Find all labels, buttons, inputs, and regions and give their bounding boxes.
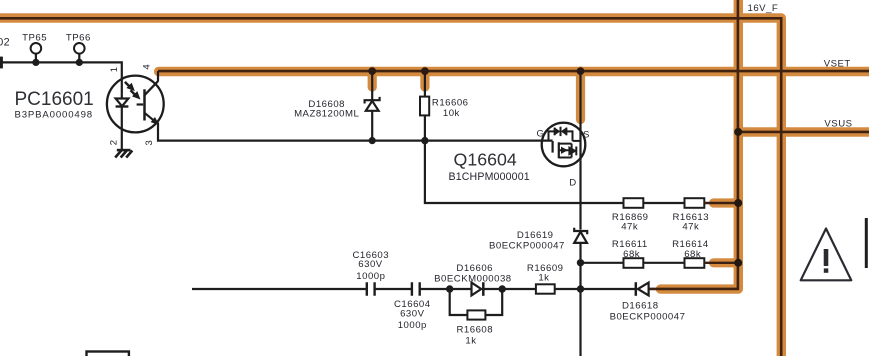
- op-to: PC16601 optocoupler: [107, 76, 164, 133]
- junction dot row3/drain: [577, 285, 584, 292]
- svg-text:VSUS: VSUS: [824, 118, 852, 129]
- wire: opto pin3 down then right (gate wire): [158, 123, 553, 141]
- wire: drain down from Q16604: [579, 161, 581, 230]
- MOSFET Q16604: [542, 71, 586, 166]
- svg-text:TP65: TP65: [22, 33, 47, 44]
- svg-text:D: D: [569, 177, 576, 188]
- svg-text:1000p: 1000p: [356, 271, 385, 282]
- diode D16618: [635, 282, 638, 296]
- highlighted stub to Q16604 source: [576, 71, 585, 119]
- wire: gate drop to row1: [425, 141, 624, 203]
- svg-text:630V: 630V: [358, 259, 383, 270]
- svg-text:TP66: TP66: [66, 33, 91, 44]
- zener diode D16619: [574, 228, 587, 356]
- svg-text:68k: 68k: [684, 249, 701, 260]
- svg-text:S: S: [583, 130, 590, 141]
- dark core: 16V_F bus 1: [649, 0, 738, 289]
- svg-text:MAZ81200ML: MAZ81200ML: [294, 109, 359, 120]
- junction dot row1/bus: [734, 199, 742, 207]
- highlighted stub to D16608: [368, 71, 377, 87]
- body diode: [569, 147, 576, 155]
- S/D vertical inside: [579, 71, 581, 161]
- wire: R16613 to bus: [704, 202, 738, 204]
- svg-text:1k: 1k: [465, 335, 476, 346]
- resistor R16613: [685, 198, 705, 208]
- capacitor C16603: [367, 282, 375, 295]
- resistor R16606: [424, 71, 426, 141]
- resistor R16611: [624, 258, 644, 268]
- wire: opto pin2 to ground: [121, 132, 123, 151]
- junction dot R16606/gate wire: [421, 137, 428, 144]
- svg-text:16V_F: 16V_F: [748, 3, 779, 14]
- source-drain rail: [571, 144, 573, 158]
- highlighted segment row2 to bus: [714, 258, 739, 267]
- svg-text:10k: 10k: [443, 108, 460, 119]
- dark core: VSET: [158, 70, 869, 73]
- svg-text:47k: 47k: [682, 222, 699, 233]
- phototransistor of PC16601: [143, 89, 146, 120]
- wire D16606 to R16609: [484, 288, 536, 290]
- warning triangle: [801, 229, 852, 281]
- svg-text:1: 1: [109, 67, 120, 72]
- branch with R16608: [450, 289, 503, 315]
- wire: between R16611 and R16614: [643, 262, 684, 264]
- svg-text:1000p: 1000p: [398, 320, 427, 331]
- junction dot D16608/gate wire: [369, 137, 376, 144]
- resistor R16608: [467, 310, 485, 319]
- junction dot row2/bus: [734, 259, 742, 267]
- wire: R16614 to bus: [704, 262, 738, 264]
- wire R16609 to drain line and D16618: [555, 288, 635, 290]
- wire: left terminal stub: [0, 57, 3, 69]
- wire: row2 from drain to R16611: [581, 262, 624, 264]
- LED of PC16601: [121, 88, 123, 99]
- junction dot S stub/VSET: [577, 67, 585, 75]
- junction dot D16608/VSET: [368, 67, 376, 75]
- svg-text:R16608: R16608: [456, 325, 493, 336]
- gate-source protection zener pair: [549, 131, 573, 141]
- resistor R16609: [536, 284, 555, 293]
- svg-text:1k: 1k: [538, 273, 549, 284]
- svg-text:2: 2: [109, 140, 120, 145]
- wire: bottom long wire: [192, 288, 367, 290]
- resistor R16869: [624, 198, 644, 208]
- junction dots around D16606: [446, 285, 453, 292]
- svg-text:B0ECKP000047: B0ECKP000047: [610, 312, 686, 323]
- highlighted net: 16V_F vertical bus 1 with hook to D16618: [661, 0, 739, 289]
- junction dot R16606/VSET: [421, 67, 429, 75]
- svg-text:Q16604: Q16604: [454, 150, 517, 170]
- gate bar and channel: [551, 141, 553, 153]
- svg-text:02: 02: [0, 36, 10, 48]
- svg-text:B1CHPM000001: B1CHPM000001: [449, 171, 530, 183]
- svg-text:47k: 47k: [621, 222, 638, 233]
- light arrows: [125, 82, 130, 88]
- junction dot row2/drain: [577, 259, 584, 266]
- svg-text:D16619: D16619: [517, 230, 554, 241]
- svg-text:D16618: D16618: [622, 301, 659, 312]
- dark core: VSUS: [738, 131, 869, 134]
- wire: between R16869 and R16613: [643, 202, 684, 204]
- highlighted stub to R16606: [420, 71, 429, 87]
- svg-text:630V: 630V: [400, 309, 425, 320]
- svg-text:G: G: [537, 128, 545, 139]
- testpoint TP65: [31, 43, 42, 54]
- highlighted segment row1 to bus: [714, 198, 739, 207]
- svg-text:3: 3: [144, 140, 155, 145]
- svg-text:PC16601: PC16601: [15, 89, 94, 110]
- svg-text:68k: 68k: [623, 249, 640, 260]
- svg-text:4: 4: [142, 64, 153, 69]
- wire: opto pin4 up to VSET: [157, 71, 159, 81]
- wire between C16603 and C16604: [375, 288, 412, 290]
- svg-text:B0ECKP000047: B0ECKP000047: [489, 241, 565, 252]
- channel stubs: [559, 144, 572, 158]
- svg-text:R16606: R16606: [432, 98, 469, 109]
- highlighted net: VSET rail: [159, 67, 869, 76]
- wire: input to opto pin1: [0, 62, 122, 88]
- junction dot VSUS/bus: [734, 128, 742, 136]
- bottom left partial box: [87, 352, 129, 356]
- highlighted net: VSUS rail: [734, 127, 869, 136]
- zener diode D16608: [365, 71, 380, 141]
- resistor R16614: [685, 258, 705, 268]
- capacitor C16604: [412, 282, 420, 295]
- svg-text:B0ECKM000038: B0ECKM000038: [434, 273, 511, 284]
- right edge component fragment: [865, 218, 868, 268]
- ground symbol: [115, 150, 132, 157]
- testpoint TP66: [74, 43, 85, 54]
- svg-text:B3PBA0000498: B3PBA0000498: [15, 109, 93, 120]
- diode D16606: [472, 283, 482, 296]
- wire C16604 to D16606: [420, 288, 471, 290]
- svg-text:VSET: VSET: [824, 59, 851, 70]
